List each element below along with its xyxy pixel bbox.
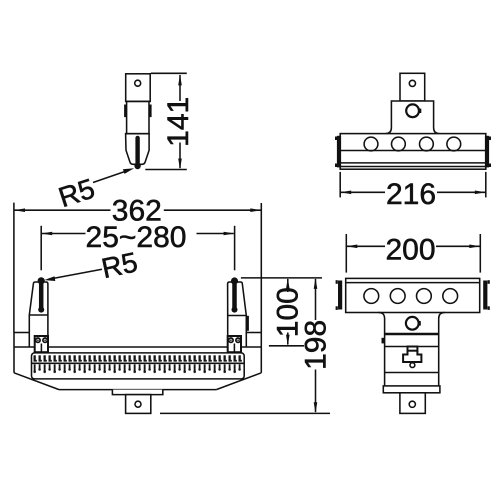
- bar holes: [364, 137, 461, 151]
- right end cap: [485, 136, 491, 168]
- left carriage screws: [36, 338, 48, 352]
- bottom left end cap: [336, 280, 343, 310]
- right post step line: [228, 315, 247, 317]
- right carriage screws: [229, 338, 241, 352]
- left post step line: [29, 314, 48, 316]
- ruler bottom graduations: [34, 364, 243, 373]
- base top step left: [14, 332, 29, 334]
- wide bar line 3: [340, 166, 486, 168]
- svg-text:216: 216: [386, 178, 436, 211]
- side tab left: [124, 105, 127, 118]
- dimension 100 bottom extension: [269, 345, 304, 347]
- T-slot hole: [410, 363, 415, 368]
- right clamp post: [228, 282, 247, 347]
- block left tab: [382, 338, 385, 344]
- pin tip ball: [134, 163, 140, 169]
- right pin bottom ball: [232, 307, 238, 313]
- left clamp post: [29, 282, 48, 347]
- svg-text:R5: R5: [55, 173, 99, 214]
- dimension 141 extension top: [151, 72, 187, 74]
- 100/198 top extension line: [241, 277, 322, 279]
- R5 lower leader: [44, 269, 102, 281]
- dimension 200 line: [346, 245, 480, 249]
- dimension 100 line: [286, 278, 290, 346]
- bottom bar holes: [364, 289, 458, 304]
- left carriage block: [35, 336, 48, 352]
- dimension 141 extension bottom: [145, 169, 187, 171]
- base chamfer left: [14, 373, 59, 390]
- block thick line: [385, 333, 439, 335]
- svg-text:25~280: 25~280: [86, 221, 187, 254]
- T block circle: [406, 104, 419, 117]
- bottom tab: [126, 395, 151, 414]
- bottom view tab hole: [409, 401, 415, 407]
- ruler body: [32, 353, 245, 379]
- dimension 362 line: [14, 208, 261, 212]
- svg-text:141: 141: [162, 97, 195, 147]
- dimension 200 extensions: [345, 234, 347, 273]
- post mid block: [127, 101, 149, 133]
- block ring nub: [418, 321, 421, 326]
- base top step right: [247, 332, 262, 334]
- dimension 362 extension right: [260, 203, 262, 333]
- T block: [385, 101, 439, 134]
- T block circle nub: [418, 109, 421, 113]
- right post side lever: [246, 316, 249, 331]
- bottom view tab: [400, 393, 425, 414]
- dimension 362 extension left: [13, 203, 15, 333]
- ruler top graduations: [34, 355, 243, 362]
- dimension 198 line: [314, 278, 318, 413]
- base left edge: [13, 333, 15, 373]
- base chamfer right: [216, 373, 261, 390]
- left end cap: [335, 136, 341, 168]
- dimension 216 line: [340, 191, 486, 195]
- bottom right end cap: [483, 280, 490, 310]
- svg-text:200: 200: [385, 234, 435, 267]
- R5 upper leader: [93, 168, 134, 182]
- right carriage block: [228, 336, 241, 352]
- wide bar line 2: [340, 162, 486, 164]
- dimension 25~280 extension left: [40, 226, 42, 270]
- top tab: [400, 73, 425, 101]
- block lower line: [385, 372, 439, 374]
- pin rod side view: [135, 138, 139, 165]
- svg-text:198: 198: [300, 320, 333, 370]
- left pin rod: [39, 281, 44, 310]
- block ring: [406, 317, 419, 330]
- block line with slot gap: [385, 346, 439, 348]
- flange: [383, 386, 440, 393]
- T-slot cavity: [403, 351, 421, 362]
- post tip outline: [126, 134, 150, 165]
- bottom tab wide part: [112, 390, 162, 395]
- base right edge: [260, 333, 262, 373]
- side tab right: [149, 105, 152, 118]
- wide bar outline: [340, 134, 486, 170]
- post top block hole: [135, 80, 141, 86]
- left pin bottom ball: [38, 307, 44, 313]
- bottom bar outline: [346, 278, 480, 312]
- dimension 25~280 line: [41, 232, 234, 236]
- T-slot neck: [408, 347, 418, 351]
- bottom tab hole: [135, 401, 141, 407]
- post top block: [126, 74, 151, 102]
- right pin top ball: [231, 277, 238, 284]
- dimension 216 extensions: [339, 172, 341, 198]
- dimension 25~280 extension right: [234, 226, 236, 270]
- dimension 141 line: [178, 74, 182, 169]
- right pin rod: [232, 281, 237, 309]
- base bottom edge: [59, 389, 216, 391]
- base rail top line: [14, 346, 261, 348]
- ruler mid line: [32, 362, 245, 364]
- top tab hole: [409, 80, 415, 86]
- dimension 198 bottom extension: [160, 412, 330, 414]
- center block with fillets: [379, 313, 445, 386]
- wide bar line 1: [340, 150, 486, 152]
- bottom bar top inner line: [346, 282, 480, 284]
- left pin top ball: [38, 277, 45, 284]
- svg-text:R5: R5: [99, 246, 140, 284]
